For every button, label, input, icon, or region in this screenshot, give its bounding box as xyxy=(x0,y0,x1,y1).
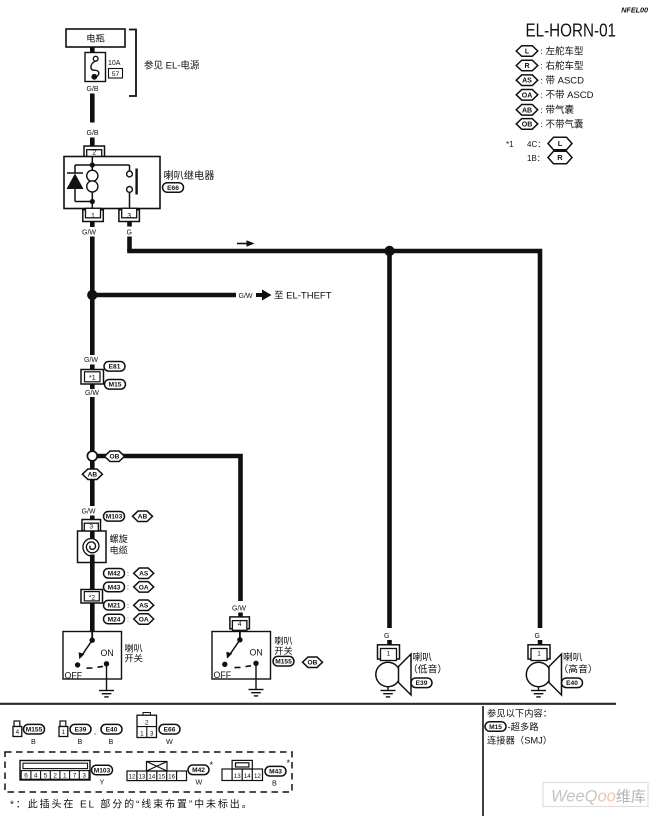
badge OB switch xyxy=(303,657,323,668)
svg-text:ON: ON xyxy=(101,648,114,658)
svg-text::: : xyxy=(127,585,129,592)
connector 4 xyxy=(230,617,250,629)
svg-text:AS: AS xyxy=(139,603,149,610)
svg-text:OA: OA xyxy=(522,92,533,99)
svg-text::: : xyxy=(540,90,542,100)
svg-text:AB: AB xyxy=(88,472,98,479)
svg-text:E39: E39 xyxy=(416,680,428,687)
svg-text:1: 1 xyxy=(62,729,66,736)
svg-text:M103: M103 xyxy=(94,767,111,774)
svg-text:右舵车型: 右舵车型 xyxy=(546,60,585,72)
svg-text:3: 3 xyxy=(150,730,154,737)
relay coil xyxy=(87,170,98,181)
svg-text:OB: OB xyxy=(522,121,533,128)
svg-text:AB: AB xyxy=(522,107,532,114)
battery 电瓶 xyxy=(66,29,125,47)
svg-text:不带气囊: 不带气囊 xyxy=(546,118,585,130)
relay id oval E66 xyxy=(163,183,184,193)
svg-text:参见以下内容：: 参见以下内容： xyxy=(487,708,552,719)
bottom oval M42 xyxy=(188,765,209,775)
bracket see EL-power xyxy=(129,30,136,97)
svg-text:14: 14 xyxy=(244,773,251,780)
open junction node xyxy=(87,451,97,461)
wire G/B xyxy=(90,94,95,123)
connector 1 horn high xyxy=(528,645,550,659)
bottom oval E39 xyxy=(70,724,91,734)
direction arrow xyxy=(237,243,247,245)
svg-text::: : xyxy=(540,61,542,71)
svg-text:开关: 开关 xyxy=(125,653,143,664)
svg-text:B: B xyxy=(78,737,83,746)
svg-text:10A: 10A xyxy=(108,60,121,67)
connector id M42 xyxy=(104,569,125,579)
svg-text:M21: M21 xyxy=(108,603,121,610)
connector 3 xyxy=(119,210,139,222)
svg-text:喇叭: 喇叭 xyxy=(125,643,143,654)
ground lead left switch xyxy=(106,667,108,691)
wire stub pin3 xyxy=(127,222,132,227)
svg-text:E40: E40 xyxy=(106,727,118,734)
badge AS row2 xyxy=(134,600,154,611)
svg-text:*：此插头在 EL 部分的“线束布置”中未标出。: *：此插头在 EL 部分的“线束布置”中未标出。 xyxy=(10,798,254,811)
fuse 10A xyxy=(85,53,106,82)
wire below spiral xyxy=(90,563,95,591)
connector id M43 xyxy=(104,582,125,592)
OFF contact right xyxy=(222,662,227,667)
svg-text:4: 4 xyxy=(238,621,242,628)
note badge L xyxy=(548,137,572,150)
svg-text:7: 7 xyxy=(73,773,77,780)
fuse number 57 box xyxy=(109,69,123,79)
ON contact right xyxy=(253,661,258,666)
wire battery to fuse xyxy=(90,47,95,53)
svg-text:G/B: G/B xyxy=(87,130,99,137)
svg-text:3: 3 xyxy=(127,213,131,220)
svg-text:电缆: 电缆 xyxy=(110,545,128,556)
horn low symbol xyxy=(376,662,400,686)
svg-text:W: W xyxy=(166,737,173,746)
svg-text:1: 1 xyxy=(91,213,95,220)
connector id M15 xyxy=(105,380,126,390)
svg-text:L: L xyxy=(525,49,530,56)
horn id E40 xyxy=(562,678,583,688)
svg-text:57: 57 xyxy=(112,71,120,78)
svg-text:OB: OB xyxy=(110,454,120,461)
svg-text:喇叭: 喇叭 xyxy=(274,635,292,646)
spiral cable box xyxy=(78,531,107,563)
switch id M155 xyxy=(273,656,294,666)
connector id M24 xyxy=(104,614,125,624)
wire stub into star1 xyxy=(90,365,95,371)
svg-text:B: B xyxy=(109,737,114,746)
svg-text:R: R xyxy=(557,153,563,162)
wire to horn low xyxy=(387,251,392,628)
wire G vertical xyxy=(127,237,132,252)
connector *1 box xyxy=(81,370,104,385)
legend badge L xyxy=(516,46,538,57)
svg-text:L: L xyxy=(558,139,563,148)
svg-text:*: * xyxy=(287,758,291,768)
badge AB spiral xyxy=(133,511,153,522)
connector *2 box xyxy=(81,590,103,604)
icon connector E66 relay xyxy=(143,713,151,716)
svg-text:R: R xyxy=(524,63,529,70)
ground horn low xyxy=(381,691,396,697)
horn high symbol xyxy=(526,662,550,686)
svg-text:1: 1 xyxy=(537,650,541,657)
relay internal wiring xyxy=(75,157,130,209)
bottom oval M43 xyxy=(265,766,286,776)
svg-text:*: * xyxy=(210,760,214,770)
svg-text:E39: E39 xyxy=(75,727,87,734)
wire G/W to circle xyxy=(90,397,95,451)
switch lever right xyxy=(230,640,240,655)
svg-text:1: 1 xyxy=(63,773,67,780)
svg-text:,: , xyxy=(94,727,96,736)
svg-text:M43: M43 xyxy=(108,584,121,591)
svg-text:ON: ON xyxy=(250,648,263,658)
horn switch left box xyxy=(63,632,122,680)
legend badge R xyxy=(516,60,538,71)
ground horn high xyxy=(531,691,546,697)
svg-text:*1: *1 xyxy=(89,375,96,382)
svg-text::: : xyxy=(127,617,129,624)
icon connector E39 xyxy=(60,721,66,727)
svg-text::: : xyxy=(540,75,542,85)
svg-text:WeeQoo维库: WeeQoo维库 xyxy=(551,788,646,806)
icon connector M43 xyxy=(222,760,263,780)
wire OB branch xyxy=(98,456,241,601)
svg-text:OB: OB xyxy=(308,660,318,667)
svg-text:3: 3 xyxy=(89,524,93,531)
svg-text::: : xyxy=(540,119,542,129)
legend badge AS xyxy=(516,75,538,86)
horn id E39 xyxy=(411,678,432,688)
dashed detail box xyxy=(5,752,292,792)
switch pivot dot right xyxy=(237,637,242,642)
bottom oval M103 xyxy=(92,765,113,775)
svg-text:不带 ASCD: 不带 ASCD xyxy=(546,90,594,101)
svg-text:-超多路: -超多路 xyxy=(508,721,540,732)
svg-text:12: 12 xyxy=(254,773,261,780)
svg-text:12: 12 xyxy=(129,774,136,781)
svg-text:*1: *1 xyxy=(506,140,514,149)
wire G horizontal run xyxy=(130,251,541,628)
legend badge OB xyxy=(516,119,538,130)
ground right switch xyxy=(249,690,264,696)
wire stub horn high xyxy=(538,640,543,646)
svg-text:M155: M155 xyxy=(26,727,43,734)
connector id M21 xyxy=(104,600,125,610)
bottom oval E40 xyxy=(101,724,122,734)
svg-text:*2: *2 xyxy=(89,594,96,601)
svg-text:G: G xyxy=(384,633,389,640)
svg-text:（高音）: （高音） xyxy=(559,663,598,676)
switch lever left xyxy=(82,640,92,655)
svg-text:OA: OA xyxy=(139,616,149,623)
svg-text:（低音）: （低音） xyxy=(408,663,447,676)
svg-text:G/W: G/W xyxy=(82,509,96,516)
svg-text:2: 2 xyxy=(92,150,96,157)
connector 1 horn low xyxy=(378,645,400,659)
svg-text::: : xyxy=(127,603,129,610)
svg-text:14: 14 xyxy=(148,774,155,781)
wire stub pin1 xyxy=(90,222,95,228)
wire stub horn low xyxy=(387,640,392,646)
badge OA row2 xyxy=(134,614,154,625)
svg-text:M42: M42 xyxy=(108,571,121,578)
svg-text:G/B: G/B xyxy=(87,86,99,93)
svg-text:电瓶: 电瓶 xyxy=(86,33,105,44)
connector 1 xyxy=(83,210,104,222)
svg-text:参见 EL-电源: 参见 EL-电源 xyxy=(144,60,200,72)
separator line xyxy=(0,703,616,705)
switch pivot dot left xyxy=(90,638,95,643)
svg-text:6: 6 xyxy=(24,773,28,780)
svg-text:G/W: G/W xyxy=(232,606,246,613)
svg-text:1B：: 1B： xyxy=(527,154,545,163)
relay node top xyxy=(90,162,95,167)
relay node bottom xyxy=(90,199,95,204)
ground left switch xyxy=(99,691,114,697)
svg-text:螺旋: 螺旋 xyxy=(110,533,128,544)
horn switch right box xyxy=(212,632,271,680)
svg-text:至 EL-THEFT: 至 EL-THEFT xyxy=(274,291,332,302)
wire stub into conn4 xyxy=(238,613,243,619)
svg-text:13: 13 xyxy=(138,774,145,781)
wire into connector 2 xyxy=(90,138,95,148)
spiral cable wire stubs xyxy=(90,531,95,539)
svg-text:4: 4 xyxy=(16,729,20,736)
wire G/W main upper xyxy=(90,237,95,356)
svg-text:AS: AS xyxy=(139,571,149,578)
arrow to EL-THEFT xyxy=(256,293,263,297)
badge OB on branch xyxy=(105,451,125,462)
connector id E81 xyxy=(104,362,125,372)
connector 2 xyxy=(84,146,105,157)
smj oval M15 xyxy=(485,722,506,732)
svg-text:E66: E66 xyxy=(164,727,176,734)
svg-text:连接器（SMJ）: 连接器（SMJ） xyxy=(487,735,552,746)
svg-text:4: 4 xyxy=(34,773,38,780)
wire branch EL-THEFT xyxy=(94,293,236,298)
svg-text:AS: AS xyxy=(522,78,532,85)
svg-text:左舵车型: 左舵车型 xyxy=(546,45,585,57)
svg-text:E81: E81 xyxy=(109,364,121,371)
watermark box xyxy=(543,783,648,807)
svg-text:2: 2 xyxy=(145,719,149,726)
svg-text:OFF: OFF xyxy=(214,670,232,680)
svg-text:Y: Y xyxy=(100,778,105,787)
right panel divider xyxy=(482,706,484,816)
icon connector M155 xyxy=(14,721,20,727)
legend badge OA xyxy=(516,90,538,101)
svg-text:M42: M42 xyxy=(192,767,205,774)
svg-text:B: B xyxy=(31,737,36,746)
svg-text:1: 1 xyxy=(387,650,391,657)
svg-text::: : xyxy=(127,571,129,578)
connector id M103 xyxy=(104,512,125,522)
svg-text:OA: OA xyxy=(139,584,149,591)
svg-text:3: 3 xyxy=(82,773,86,780)
connector 3 spiral xyxy=(82,520,101,532)
wire below circle xyxy=(90,461,95,506)
wire stub into conn3b xyxy=(90,516,95,522)
junction node EL-THEFT xyxy=(87,290,97,300)
svg-text:OFF: OFF xyxy=(65,671,83,681)
icon connector M103 strip xyxy=(20,761,90,781)
svg-text:1: 1 xyxy=(140,730,144,737)
svg-text:带气囊: 带气囊 xyxy=(546,104,575,116)
svg-text:M155: M155 xyxy=(275,659,292,666)
ON contact left xyxy=(104,661,109,666)
svg-text:E66: E66 xyxy=(167,185,179,192)
svg-text:2: 2 xyxy=(53,773,57,780)
badge AB on wire xyxy=(82,469,102,480)
svg-text:M15: M15 xyxy=(109,382,122,389)
svg-text:G: G xyxy=(127,230,132,237)
OFF contact left xyxy=(75,662,80,667)
svg-text:16: 16 xyxy=(168,774,175,781)
ground lead right switch xyxy=(255,666,257,690)
svg-text:喇叭继电器: 喇叭继电器 xyxy=(164,169,215,182)
svg-text:M15: M15 xyxy=(489,724,502,731)
svg-text:带 ASCD: 带 ASCD xyxy=(546,76,585,87)
wire into left switch xyxy=(90,603,95,632)
horn relay E66 box xyxy=(64,157,160,209)
badge AS row1 xyxy=(134,568,154,579)
badge OA row1 xyxy=(134,582,154,593)
svg-text::: : xyxy=(540,105,542,115)
svg-text:G/W: G/W xyxy=(84,357,98,364)
svg-text:G/W: G/W xyxy=(82,230,96,237)
svg-text::: : xyxy=(540,46,542,56)
svg-text:4C：: 4C： xyxy=(527,140,545,149)
icon connector M42 xyxy=(127,762,187,781)
relay diode xyxy=(67,172,83,174)
bottom oval E66 xyxy=(159,724,180,734)
svg-text:EL-HORN-01: EL-HORN-01 xyxy=(526,20,617,41)
svg-text:G/W: G/W xyxy=(85,390,99,397)
svg-text:喇叭: 喇叭 xyxy=(563,652,583,664)
note badge R xyxy=(548,151,572,164)
legend badge AB xyxy=(516,105,538,116)
svg-text:开关: 开关 xyxy=(274,645,292,656)
svg-text:G: G xyxy=(535,633,540,640)
svg-text:B: B xyxy=(272,779,277,788)
spiral symbol xyxy=(83,539,99,557)
junction node to low horn xyxy=(384,246,394,256)
bottom oval M155 xyxy=(24,724,45,734)
relay contact xyxy=(127,171,133,177)
svg-text:M103: M103 xyxy=(106,514,123,521)
svg-text:NFEL00: NFEL00 xyxy=(621,6,648,15)
svg-text:W: W xyxy=(196,778,203,787)
wire stub below star1 xyxy=(90,384,95,389)
svg-text:G/W: G/W xyxy=(239,293,253,300)
svg-text:喇叭: 喇叭 xyxy=(413,652,433,664)
svg-text:M24: M24 xyxy=(108,616,121,623)
svg-text:M43: M43 xyxy=(269,769,282,776)
svg-text:E40: E40 xyxy=(566,680,578,687)
svg-text:5: 5 xyxy=(44,773,48,780)
svg-text:15: 15 xyxy=(158,774,165,781)
svg-text:13: 13 xyxy=(234,773,241,780)
svg-text:AB: AB xyxy=(138,514,148,521)
